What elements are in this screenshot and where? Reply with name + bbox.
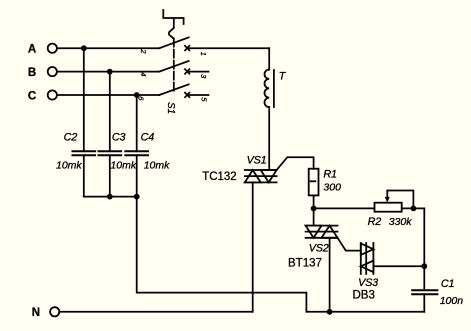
VS2 gate wire [338,238,361,251]
capacitor C3 [99,72,122,197]
svg-text:100n: 100n [440,295,464,307]
svg-text:DB3: DB3 [353,289,375,301]
svg-text:300: 300 [323,181,341,193]
wire transformer to VS1 [268,107,270,170]
svg-text:C3: C3 [112,132,126,144]
junction A/C2 [81,45,87,51]
wire gate bus R1-R2 [314,207,425,209]
transformer T winding [265,70,270,108]
triac VS2 [306,226,338,238]
svg-text:10mk: 10mk [144,160,170,172]
junction VS3/C1 [421,263,427,269]
wire B [57,71,159,73]
wire pole3 stub [189,94,208,96]
capacitor C1 [412,290,437,294]
switch S1 pole 1 contact x [185,46,189,51]
svg-text:R1: R1 [323,169,337,181]
wire pole2 stub [189,71,208,73]
wire VS1 anode to bottom [252,182,254,311]
wire C1 bottom [423,294,425,312]
junction C3/bus [107,194,113,200]
wire VS3 to C1 node [373,265,424,267]
junction C4/bus [134,194,140,200]
wire transformer drop [268,48,270,69]
junction R1/R2/VS2 [311,206,317,212]
svg-text:A: A [28,44,36,56]
svg-text:VS3: VS3 [358,277,378,289]
wire pole1 to transformer [189,47,269,49]
wire N rail [60,311,253,313]
terminal N [50,307,59,316]
capacitor C2 [73,48,96,196]
wire bus down and right [137,197,307,312]
svg-text:1: 1 [199,52,208,56]
svg-text:VS2: VS2 [309,243,329,255]
junction R2 wiper [411,206,417,212]
switch S1 linkage (dashed) [173,39,175,92]
switch S1 pole 2 arm [159,61,188,72]
wire R2 node down to VS3/C1 node [423,208,425,266]
wire C1 top [423,266,425,290]
junction VS2/bottom rail [327,309,333,315]
svg-text:VS1: VS1 [247,155,267,167]
svg-text:4: 4 [139,72,148,76]
VS1 gate wire [277,157,314,170]
svg-text:330k: 330k [389,216,413,228]
diac VS3 [361,243,374,274]
terminal B [48,67,57,76]
switch S1 pole 1 arm [159,37,188,48]
wire R1 to node [313,195,315,208]
wire bottom rail right [306,311,424,313]
wire capacitor bus [84,196,137,198]
terminal C [48,90,57,99]
svg-text:2: 2 [139,48,148,54]
svg-text:N: N [32,307,40,319]
svg-text:B: B [28,67,36,79]
switch S1 pole 3 arm [159,84,188,95]
switch S1 pole 2 contact x [185,69,189,74]
switch S1 pole 3 contact x [185,93,189,98]
terminal A [48,44,57,53]
svg-text:10mk: 10mk [110,160,136,172]
wire C [57,94,159,96]
svg-text:BT137: BT137 [288,257,322,269]
resistor R1 [309,169,319,196]
svg-text:C: C [28,90,36,102]
junction B/C3 [107,69,113,75]
switch S1 handle [163,10,183,39]
wire A [57,47,159,49]
svg-text:C2: C2 [64,132,78,144]
wire VS2 top [313,208,315,225]
triac VS1 [245,170,277,182]
wire VS2 bottom [329,238,331,312]
svg-text:10mk: 10mk [56,160,82,172]
potentiometer R2 [375,191,414,212]
svg-text:C1: C1 [441,278,455,290]
svg-text:R2: R2 [368,216,382,228]
svg-text:TC132: TC132 [202,171,237,183]
junction C/C4 [134,92,140,98]
svg-text:S1: S1 [165,102,176,114]
svg-text:C4: C4 [141,132,155,144]
transformer T core [273,70,275,107]
capacitor C4 [125,95,148,197]
